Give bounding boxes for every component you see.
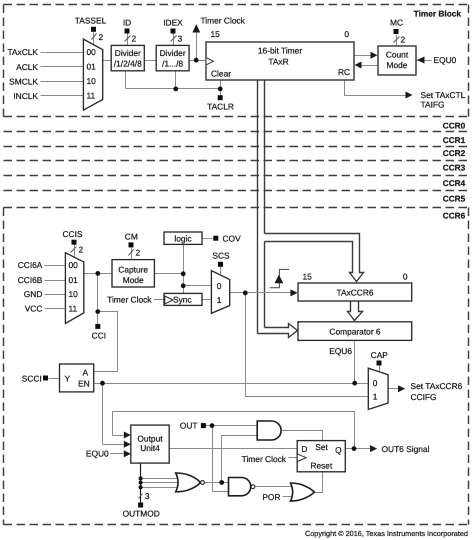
svg-text:TAxCCR6: TAxCCR6 xyxy=(336,287,373,297)
svg-text:Copyright © 2016, Texas Instru: Copyright © 2016, Texas Instruments Inco… xyxy=(305,529,468,538)
svg-text:16-bit Timer: 16-bit Timer xyxy=(258,46,302,56)
svg-text:CCR3: CCR3 xyxy=(443,163,466,173)
svg-text:1: 1 xyxy=(217,295,222,305)
svg-text:CCI6A: CCI6A xyxy=(18,260,43,270)
svg-text:Set TAxCCR6: Set TAxCCR6 xyxy=(411,381,463,391)
svg-text:/1.../8: /1.../8 xyxy=(162,59,183,69)
svg-text:TAxCLK: TAxCLK xyxy=(7,47,38,57)
svg-text:Set TAxCTL: Set TAxCTL xyxy=(421,90,466,100)
svg-text:1: 1 xyxy=(373,392,378,402)
svg-text:2: 2 xyxy=(401,35,406,45)
svg-text:2: 2 xyxy=(99,32,104,42)
svg-text:CCR0: CCR0 xyxy=(443,120,466,130)
svg-text:2: 2 xyxy=(79,245,84,255)
svg-text:TACLR: TACLR xyxy=(207,102,234,112)
svg-text:0: 0 xyxy=(403,272,408,282)
svg-text:TAIFG: TAIFG xyxy=(421,100,445,110)
svg-text:VCC: VCC xyxy=(25,303,43,313)
svg-text:Divider: Divider xyxy=(160,48,186,58)
svg-text:00: 00 xyxy=(87,47,97,57)
svg-text:TASSEL: TASSEL xyxy=(75,16,107,26)
svg-text:Output: Output xyxy=(137,433,163,443)
svg-text:2: 2 xyxy=(132,34,137,44)
svg-text:CCR5: CCR5 xyxy=(443,194,466,204)
svg-text:COV: COV xyxy=(223,233,242,243)
svg-text:SCCI: SCCI xyxy=(22,374,42,384)
svg-text:D: D xyxy=(301,444,307,454)
svg-text:logic: logic xyxy=(174,233,191,243)
svg-text:Mode: Mode xyxy=(387,60,408,70)
svg-text:Mode: Mode xyxy=(123,275,144,285)
svg-text:Count: Count xyxy=(386,50,409,60)
svg-text:15: 15 xyxy=(303,272,313,282)
svg-text:CCR2: CCR2 xyxy=(443,148,466,158)
svg-text:Set: Set xyxy=(315,442,328,452)
svg-text:Reset: Reset xyxy=(310,461,333,471)
svg-text:OUT: OUT xyxy=(180,421,198,431)
svg-text:00: 00 xyxy=(69,260,79,270)
svg-text:A: A xyxy=(83,368,89,378)
svg-text:3: 3 xyxy=(145,491,150,501)
svg-text:11: 11 xyxy=(69,303,78,313)
svg-text:GND: GND xyxy=(24,289,43,299)
svg-text:CAP: CAP xyxy=(371,350,389,360)
svg-text:15: 15 xyxy=(211,29,221,39)
svg-text:Y: Y xyxy=(65,374,71,384)
svg-text:0: 0 xyxy=(217,281,222,291)
svg-text:CM: CM xyxy=(125,232,138,242)
svg-text:Clear: Clear xyxy=(211,69,231,79)
svg-text:Timer Block: Timer Block xyxy=(414,9,462,19)
svg-text:ACLK: ACLK xyxy=(16,62,38,72)
svg-text:TAxR: TAxR xyxy=(268,57,288,67)
svg-text:SCS: SCS xyxy=(212,251,230,261)
svg-text:Capture: Capture xyxy=(118,264,148,274)
svg-text:EQU6: EQU6 xyxy=(329,346,352,356)
svg-text:CCI: CCI xyxy=(92,331,106,341)
svg-text:OUTMOD: OUTMOD xyxy=(123,508,160,518)
svg-text:/1/2/4/8: /1/2/4/8 xyxy=(114,59,142,69)
svg-text:10: 10 xyxy=(69,289,79,299)
svg-text:EN: EN xyxy=(78,379,90,389)
svg-text:CCIS: CCIS xyxy=(62,229,82,239)
svg-text:0: 0 xyxy=(344,29,349,39)
svg-text:0: 0 xyxy=(373,378,378,388)
svg-text:Unit4: Unit4 xyxy=(140,443,160,453)
svg-text:Comparator 6: Comparator 6 xyxy=(329,326,381,336)
svg-text:10: 10 xyxy=(87,76,97,86)
svg-text:Q: Q xyxy=(335,445,342,455)
svg-text:SMCLK: SMCLK xyxy=(9,77,38,87)
svg-text:2: 2 xyxy=(136,248,141,258)
svg-text:CCR1: CCR1 xyxy=(443,135,466,145)
svg-text:IDEX: IDEX xyxy=(163,18,183,28)
svg-text:EQU0: EQU0 xyxy=(86,449,109,459)
svg-text:11: 11 xyxy=(87,91,96,101)
svg-text:CCIFG: CCIFG xyxy=(411,392,437,402)
svg-text:Divider: Divider xyxy=(115,48,141,58)
svg-text:Timer Clock: Timer Clock xyxy=(107,295,152,305)
svg-text:01: 01 xyxy=(69,275,79,285)
svg-text:CCR4: CCR4 xyxy=(443,178,466,188)
svg-text:Timer Clock: Timer Clock xyxy=(201,16,246,26)
svg-text:Timer Clock: Timer Clock xyxy=(242,454,287,464)
svg-text:CCR6: CCR6 xyxy=(443,210,466,220)
svg-text:Sync: Sync xyxy=(173,295,192,305)
svg-text:ID: ID xyxy=(123,18,131,28)
svg-text:INCLK: INCLK xyxy=(13,91,38,101)
svg-text:RC: RC xyxy=(338,67,350,77)
svg-text:01: 01 xyxy=(87,62,97,72)
svg-text:CCI6B: CCI6B xyxy=(18,275,43,285)
svg-text:3: 3 xyxy=(178,34,183,44)
svg-text:POR: POR xyxy=(262,492,280,502)
svg-text:EQU0: EQU0 xyxy=(434,55,457,65)
svg-text:OUT6 Signal: OUT6 Signal xyxy=(382,444,430,454)
svg-text:MC: MC xyxy=(390,18,403,28)
